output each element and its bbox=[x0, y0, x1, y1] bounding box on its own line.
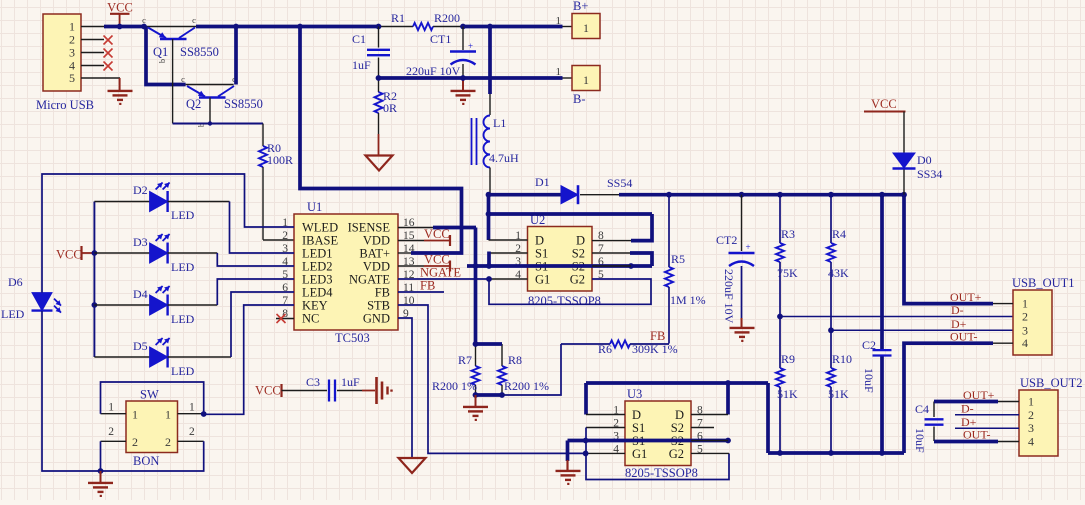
svg-text:LED: LED bbox=[1, 307, 25, 321]
svg-text:1: 1 bbox=[556, 15, 562, 27]
net label D+ OUT1 bbox=[951, 317, 967, 331]
pin 5 wire to ground bbox=[81, 78, 120, 90]
svg-text:C4: C4 bbox=[915, 402, 929, 416]
svg-text:Q1: Q1 bbox=[153, 45, 168, 59]
net label FB at R6 bbox=[650, 329, 665, 343]
svg-text:SS54: SS54 bbox=[607, 176, 632, 190]
ground below CT2 bbox=[730, 328, 755, 341]
svg-text:LED: LED bbox=[171, 364, 195, 378]
svg-text:LED: LED bbox=[171, 260, 195, 274]
wire Q2 collector up to B+ net bbox=[234, 27, 238, 85]
svg-text:Micro USB: Micro USB bbox=[36, 98, 94, 112]
svg-text:51K: 51K bbox=[828, 387, 849, 401]
svg-text:GND: GND bbox=[363, 312, 390, 326]
wire U3 D net down to OUT- bus bbox=[766, 383, 770, 453]
svg-text:LED3: LED3 bbox=[302, 273, 333, 287]
svg-text:D: D bbox=[675, 408, 684, 422]
svg-text:R4: R4 bbox=[832, 227, 846, 241]
svg-text:NGATE: NGATE bbox=[420, 266, 461, 280]
svg-text:3: 3 bbox=[1028, 421, 1034, 435]
wire D6 cathode down to ground net bbox=[42, 311, 101, 471]
svg-text:+: + bbox=[468, 41, 473, 51]
wire U2 pin7 elbow to sense net bbox=[592, 253, 652, 266]
svg-text:R10: R10 bbox=[832, 352, 852, 366]
svg-text:8205-TSSOP8: 8205-TSSOP8 bbox=[528, 294, 601, 308]
svg-text:10uF: 10uF bbox=[862, 368, 876, 393]
svg-text:2: 2 bbox=[132, 435, 138, 449]
wire U3 sense net through box bbox=[568, 438, 731, 444]
wire D3 cathode to U1 pin 4 bbox=[168, 253, 294, 266]
svg-text:BAT+: BAT+ bbox=[359, 247, 390, 261]
svg-text:1: 1 bbox=[189, 402, 195, 414]
svg-text:C1: C1 bbox=[352, 32, 366, 46]
svg-text:R8: R8 bbox=[508, 353, 522, 367]
wire U2 pin1 bbox=[489, 239, 528, 241]
wire U3 pin6 bbox=[691, 440, 728, 442]
resistor R6 309K 1% bbox=[598, 340, 678, 356]
svg-text:b: b bbox=[157, 59, 167, 63]
wire boost node to D1 anode bbox=[489, 193, 562, 197]
power port VCC at D0 bbox=[864, 97, 906, 112]
wire U3 pin8 from D net bbox=[691, 383, 728, 415]
svg-text:B-: B- bbox=[573, 92, 586, 106]
wire SW pin2 left to ground bbox=[101, 441, 127, 472]
svg-text:309K 1%: 309K 1% bbox=[632, 342, 678, 356]
svg-text:2: 2 bbox=[108, 426, 114, 438]
svg-text:LED: LED bbox=[171, 208, 195, 222]
svg-text:CT1: CT1 bbox=[430, 32, 451, 46]
resistor R8 R200 1% bbox=[498, 344, 549, 395]
wire D4 cathode to U1 pin 5 bbox=[168, 279, 294, 305]
LED D6 indicator bbox=[1, 275, 61, 321]
svg-text:G2: G2 bbox=[669, 447, 684, 461]
svg-text:R9: R9 bbox=[781, 352, 795, 366]
capacitor CT2 220uF 10V electrolytic bbox=[716, 195, 755, 327]
svg-text:S2: S2 bbox=[671, 421, 684, 435]
wire Q1 base down bbox=[172, 39, 174, 124]
wire U3 pin4 G1 bbox=[583, 451, 625, 457]
svg-text:R7: R7 bbox=[458, 353, 472, 367]
resistor R7 R200 1% bbox=[432, 344, 480, 395]
svg-text:+: + bbox=[746, 242, 751, 252]
pin 3 stub with no-connect X bbox=[81, 49, 113, 58]
svg-text:D: D bbox=[632, 408, 641, 422]
svg-text:D5: D5 bbox=[133, 339, 148, 353]
resistor R3 75K bbox=[776, 195, 798, 317]
svg-text:4.7uH: 4.7uH bbox=[489, 151, 519, 165]
svg-text:NC: NC bbox=[302, 312, 319, 326]
svg-text:LED4: LED4 bbox=[302, 286, 333, 300]
wire D+ from divider to USB_OUT1 pin3 bbox=[828, 327, 1013, 333]
wire SW pin1 left loop bbox=[101, 382, 204, 414]
resistor R9 51K bbox=[776, 317, 798, 454]
wire U1 pin16 ISENSE to sense net bbox=[398, 228, 476, 345]
svg-text:VDD: VDD bbox=[363, 260, 390, 274]
svg-text:IBASE: IBASE bbox=[302, 234, 338, 248]
svg-text:BON: BON bbox=[133, 454, 159, 468]
svg-text:R5: R5 bbox=[671, 252, 685, 266]
connector USB_OUT1 bbox=[1012, 276, 1075, 355]
pin 1 wire of Micro USB bbox=[81, 26, 106, 28]
svg-text:8205-TSSOP8: 8205-TSSOP8 bbox=[625, 466, 698, 480]
wire U2 pin4 gate loop to pin5 bbox=[486, 276, 651, 304]
svg-text:2: 2 bbox=[69, 33, 75, 47]
connector B- bbox=[556, 66, 601, 107]
svg-text:R200: R200 bbox=[434, 11, 460, 25]
svg-text:VCC: VCC bbox=[424, 253, 450, 267]
svg-text:VCC: VCC bbox=[424, 227, 450, 241]
LED D5 bbox=[94, 338, 194, 378]
svg-text:R6: R6 bbox=[598, 342, 612, 356]
wire battery negative net bbox=[379, 76, 563, 80]
svg-text:D4: D4 bbox=[133, 287, 148, 301]
svg-text:OUT-: OUT- bbox=[950, 330, 978, 344]
power port VCC (top left) bbox=[107, 1, 133, 27]
svg-text:3: 3 bbox=[1022, 323, 1028, 337]
svg-text:D: D bbox=[576, 234, 585, 248]
svg-text:1: 1 bbox=[1022, 297, 1028, 311]
LED D2 bbox=[94, 183, 194, 223]
resistor R5 1M 1% bbox=[665, 195, 706, 344]
wire U3 D net top bbox=[586, 380, 768, 386]
ground below CT1 bbox=[451, 78, 476, 104]
resistor R10 51K bbox=[827, 330, 852, 453]
svg-text:c: c bbox=[142, 15, 146, 25]
svg-text:D1: D1 bbox=[535, 175, 550, 189]
capacitor CT1 220uF 10V electrolytic bbox=[406, 27, 476, 79]
ground below R7 bbox=[463, 395, 488, 420]
svg-text:U3: U3 bbox=[627, 387, 642, 401]
svg-text:1: 1 bbox=[69, 20, 75, 34]
svg-text:D6: D6 bbox=[8, 275, 23, 289]
svg-text:D0: D0 bbox=[917, 153, 932, 167]
svg-text:OUT+: OUT+ bbox=[950, 290, 982, 304]
power port VCC on U1 pin15 bbox=[398, 227, 450, 246]
transistor Q2 SS8550 bbox=[181, 74, 263, 111]
wire U1 pin9 GND down bbox=[398, 318, 412, 457]
wire U2 pin6 bbox=[592, 265, 631, 267]
ground below SW bbox=[88, 471, 113, 496]
svg-text:FB: FB bbox=[375, 286, 390, 300]
svg-text:4: 4 bbox=[1028, 435, 1034, 449]
svg-text:LED: LED bbox=[171, 312, 195, 326]
wire FB from R8 to R6 bbox=[502, 344, 610, 395]
svg-text:OUT+: OUT+ bbox=[963, 388, 995, 402]
ground arrow below U1 pin9 bbox=[399, 458, 426, 473]
wire D2 cathode to U1 pin 3 bbox=[168, 202, 294, 254]
diode D0 SS34 bbox=[893, 112, 943, 195]
wire U3 pin1 from D net bbox=[586, 383, 625, 415]
wire base net horizontal to R0 bbox=[173, 123, 263, 125]
wire sense net horizontal through U2 bbox=[467, 263, 652, 269]
svg-text:1uF: 1uF bbox=[352, 58, 371, 72]
svg-text:FB: FB bbox=[650, 329, 665, 343]
svg-text:1: 1 bbox=[132, 408, 138, 422]
svg-text:SW: SW bbox=[140, 388, 159, 402]
U1 pin 8 no-connect stub bbox=[276, 314, 294, 323]
svg-text:SS34: SS34 bbox=[917, 167, 942, 181]
junction dots on B+ net bbox=[117, 24, 493, 30]
svg-text:5: 5 bbox=[69, 71, 75, 85]
svg-text:D2: D2 bbox=[133, 183, 148, 197]
wire OUT+ to USB_OUT1 pin1 bbox=[904, 195, 1013, 304]
svg-text:C3: C3 bbox=[306, 375, 320, 389]
svg-text:LED2: LED2 bbox=[302, 260, 333, 274]
svg-text:B+: B+ bbox=[573, 0, 588, 13]
mosfet U2 8205-TSSOP8 bbox=[515, 213, 604, 308]
LED D4 bbox=[94, 286, 194, 326]
svg-text:R1: R1 bbox=[391, 11, 405, 25]
svg-text:L1: L1 bbox=[493, 116, 506, 130]
svg-text:OUT-: OUT- bbox=[963, 428, 991, 442]
svg-text:USB_OUT1: USB_OUT1 bbox=[1012, 276, 1075, 290]
ground sideways at C3 bbox=[377, 377, 392, 404]
svg-text:WLED: WLED bbox=[302, 221, 338, 235]
wire U1 pin14 BAT+ elbow to B+ net bbox=[300, 27, 462, 254]
svg-text:2: 2 bbox=[1028, 408, 1034, 422]
ground at U3 sense net bbox=[556, 441, 581, 484]
svg-text:USB_OUT2: USB_OUT2 bbox=[1020, 376, 1083, 390]
svg-text:1: 1 bbox=[583, 21, 589, 35]
svg-text:10uF: 10uF bbox=[913, 428, 927, 453]
svg-text:43K: 43K bbox=[828, 266, 849, 280]
svg-text:220uF 10V: 220uF 10V bbox=[722, 269, 736, 324]
wire from B+ net down to L1 bbox=[488, 27, 492, 116]
svg-text:VCC: VCC bbox=[255, 384, 281, 398]
wire D- from divider to USB_OUT1 pin2 bbox=[777, 314, 1013, 320]
op-amp U1 TC503 main IC bbox=[282, 200, 415, 345]
svg-text:220uF 10V: 220uF 10V bbox=[406, 64, 461, 78]
power port VCC for LED bus bbox=[56, 246, 94, 262]
svg-text:2: 2 bbox=[189, 426, 195, 438]
connector B+ bbox=[556, 0, 601, 39]
ground for USB shell bbox=[108, 91, 133, 104]
svg-text:c: c bbox=[192, 15, 196, 25]
svg-text:VCC: VCC bbox=[871, 97, 897, 111]
resistor R2 0R bbox=[375, 78, 398, 155]
capacitor C3 1uF bbox=[282, 375, 376, 402]
svg-text:U1: U1 bbox=[307, 200, 322, 214]
svg-text:ISENSE: ISENSE bbox=[348, 221, 391, 235]
svg-text:1: 1 bbox=[583, 73, 589, 87]
wire from L1 down to boost node bbox=[489, 168, 491, 195]
pin 4 stub with no-connect X bbox=[81, 62, 113, 71]
svg-text:R3: R3 bbox=[781, 227, 795, 241]
pin 2 stub with no-connect X bbox=[81, 36, 113, 45]
wire D- stub USB_OUT2 pin2 bbox=[955, 402, 1019, 416]
svg-text:1: 1 bbox=[165, 408, 171, 422]
capacitor C2 10uF bbox=[862, 195, 892, 453]
svg-text:TC503: TC503 bbox=[335, 331, 370, 345]
LED D3 bbox=[94, 234, 194, 274]
svg-text:c: c bbox=[181, 74, 185, 84]
wire U3 pin2 loop to pin5 bbox=[586, 428, 729, 480]
power port VCC at C3 bbox=[255, 384, 282, 398]
junction dots on B- wire bbox=[376, 75, 466, 81]
net label FB on U1 pin11 bbox=[398, 279, 444, 293]
svg-text:SS8550: SS8550 bbox=[224, 97, 263, 111]
wire OUT- to USB_OUT1 pin4 bbox=[904, 330, 1013, 454]
diode D1 SS54 bbox=[535, 175, 632, 204]
net label D- OUT1 bbox=[951, 303, 964, 317]
switch SW BON bbox=[108, 388, 195, 469]
svg-text:1: 1 bbox=[556, 66, 562, 78]
wire SW pin1 right to KEY bbox=[178, 305, 295, 417]
svg-text:4: 4 bbox=[1022, 336, 1028, 350]
resistor R0 100R bbox=[259, 124, 294, 241]
svg-text:CT2: CT2 bbox=[716, 233, 737, 247]
svg-text:51K: 51K bbox=[777, 387, 798, 401]
svg-text:1: 1 bbox=[108, 402, 114, 414]
junction dots on VCC-out net bbox=[486, 192, 907, 198]
svg-text:S1: S1 bbox=[632, 421, 645, 435]
power port VCC on U1 pin13 bbox=[398, 253, 450, 272]
wire NGATE U1 pin12 to U2 gates bbox=[398, 278, 489, 280]
wire OUT- ground bus bottom bbox=[768, 450, 904, 456]
svg-text:1M 1%: 1M 1% bbox=[670, 293, 706, 307]
mosfet U3 8205-TSSOP8 bbox=[613, 387, 703, 480]
transistor Q1 SS8550 bbox=[142, 15, 219, 63]
wire U1 pin10 STB down to U3 G1 bbox=[398, 305, 586, 453]
capacitor C1 1uF bbox=[352, 27, 390, 79]
wire U2 D net from boost node bbox=[486, 195, 652, 240]
svg-text:D: D bbox=[535, 234, 544, 248]
wire D+ stub USB_OUT2 pin3 bbox=[955, 415, 1019, 429]
svg-text:75K: 75K bbox=[777, 266, 798, 280]
svg-text:3: 3 bbox=[69, 46, 75, 60]
net label NGATE on U1 pin12 bbox=[420, 266, 461, 280]
svg-text:G1: G1 bbox=[535, 273, 550, 287]
svg-text:Q2: Q2 bbox=[186, 97, 201, 111]
svg-text:NGATE: NGATE bbox=[349, 273, 390, 287]
svg-text:2: 2 bbox=[165, 435, 171, 449]
connector USB_OUT2 bbox=[1019, 376, 1083, 456]
capacitor C4 10uF bbox=[913, 402, 944, 454]
svg-text:D3: D3 bbox=[133, 235, 148, 249]
wire R7 R8 bottom bar bbox=[473, 392, 505, 398]
ground arrow below R2 bbox=[366, 156, 393, 171]
svg-text:G1: G1 bbox=[632, 447, 647, 461]
svg-text:R200 1%: R200 1% bbox=[504, 379, 549, 393]
svg-text:G2: G2 bbox=[570, 273, 585, 287]
svg-text:FB: FB bbox=[420, 279, 435, 293]
wire R7 R8 top bar bbox=[473, 341, 502, 347]
wire U3 pin7 stub bbox=[691, 427, 714, 429]
svg-text:0R: 0R bbox=[383, 101, 397, 115]
svg-text:SS8550: SS8550 bbox=[180, 45, 219, 59]
svg-text:2: 2 bbox=[282, 230, 288, 242]
resistor R1 R200 bbox=[391, 11, 460, 30]
svg-text:1: 1 bbox=[1028, 395, 1034, 409]
wire OUT- to USB_OUT2 pin4 bbox=[934, 428, 1019, 442]
svg-text:LED1: LED1 bbox=[302, 247, 333, 261]
wire SW pin2 right loop to ground bbox=[98, 441, 204, 474]
svg-text:VDD: VDD bbox=[363, 234, 390, 248]
wire U2 pin8 elbow to D net bbox=[592, 214, 652, 241]
wire Q1 collector elbow to Q2 emitter bbox=[146, 27, 186, 85]
svg-text:2: 2 bbox=[1022, 310, 1028, 324]
wire LED anode bus vertical bbox=[92, 202, 98, 358]
svg-text:VCC: VCC bbox=[56, 248, 82, 262]
svg-text:D-: D- bbox=[961, 402, 974, 416]
svg-text:R200 1%: R200 1% bbox=[432, 379, 477, 393]
svg-text:C2: C2 bbox=[862, 338, 876, 352]
svg-text:KEY: KEY bbox=[302, 299, 328, 313]
connector Micro USB bbox=[36, 14, 94, 112]
svg-text:VCC: VCC bbox=[107, 1, 133, 15]
wire U2 pin2 stub to sense net bbox=[489, 252, 528, 267]
inductor L1 4.7uH bbox=[472, 116, 520, 168]
wire B+ net top horizontal bbox=[104, 25, 563, 29]
svg-text:S1: S1 bbox=[535, 247, 548, 261]
wire OUT+ to USB_OUT2 pin1 bbox=[934, 388, 1019, 402]
svg-text:1uF: 1uF bbox=[341, 375, 360, 389]
resistor R4 43K bbox=[827, 195, 849, 331]
svg-text:100R: 100R bbox=[267, 153, 293, 167]
wire D5 cathode to U1 pin 6 bbox=[168, 292, 294, 357]
wire Q2 base down to base net bbox=[196, 98, 212, 128]
wire WLED net from U1 pin 1 over to D6 bbox=[42, 174, 294, 293]
svg-text:STB: STB bbox=[367, 299, 390, 313]
svg-text:S2: S2 bbox=[572, 247, 585, 261]
wire VCC-out net horizontal bbox=[619, 193, 904, 197]
svg-text:D-: D- bbox=[951, 303, 964, 317]
